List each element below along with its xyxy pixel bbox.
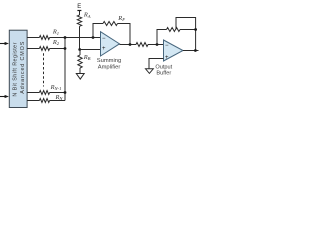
svg-text:Summing: Summing bbox=[97, 58, 121, 64]
svg-text:+: + bbox=[165, 55, 169, 61]
wire E to RA bbox=[79, 11, 81, 16]
wire RB to ground bbox=[79, 68, 81, 73]
summing feedback wire bbox=[93, 24, 130, 45]
junction loop-resistor bbox=[194, 28, 197, 31]
resistor RB bbox=[78, 55, 82, 68]
junction bus-RN-1 bbox=[64, 91, 67, 94]
svg-text:Amplifier: Amplifier bbox=[98, 65, 121, 71]
svg-text:Advanced CMOS: Advanced CMOS bbox=[20, 41, 26, 93]
resistor R2 bbox=[39, 47, 49, 51]
svg-text:+: + bbox=[102, 46, 106, 52]
summing bus wire bbox=[64, 38, 66, 101]
op-amp U2 output buffer bbox=[164, 40, 184, 61]
wire row N-1 (block to bus) bbox=[27, 92, 65, 94]
input arrow 1 bbox=[0, 42, 9, 45]
input arrow 2 bbox=[0, 95, 9, 98]
wire row 1 (block to op-amp minus input) bbox=[27, 37, 100, 39]
wire row N (block to bus corner) bbox=[27, 100, 65, 102]
buffer feedback resistor bbox=[167, 28, 181, 32]
svg-text:E: E bbox=[77, 4, 81, 10]
coupling resistor R bbox=[136, 43, 148, 47]
junction buffer input tap bbox=[156, 43, 159, 46]
wire node to RB bbox=[79, 50, 81, 56]
resistor RA bbox=[77, 15, 81, 26]
junction bus-R1 bbox=[64, 36, 67, 39]
dashed ellipsis line bbox=[43, 53, 45, 86]
svg-text:−: − bbox=[102, 36, 106, 42]
E terminal bar bbox=[77, 10, 81, 12]
junction output-RF bbox=[129, 43, 132, 46]
resistor RF bbox=[103, 22, 118, 26]
buffer output wire bbox=[183, 50, 199, 52]
resistor R1 bbox=[39, 36, 49, 40]
svg-text:N Bit Shift Register: N Bit Shift Register bbox=[12, 42, 18, 96]
ground (RB) bbox=[76, 74, 84, 80]
svg-text:Output: Output bbox=[155, 65, 172, 71]
buffer feedback parallel loop bbox=[176, 18, 196, 30]
wire RA to node (crosses row 1 without junction) bbox=[79, 26, 81, 49]
junction bus-R2 bbox=[64, 47, 67, 50]
ground (buffer) bbox=[146, 69, 154, 74]
node junction plus-input bbox=[78, 48, 81, 51]
junction output-feedback bbox=[194, 49, 197, 52]
summing feedback tap junction bbox=[92, 36, 95, 39]
op-amp U1 summing amplifier bbox=[101, 32, 120, 56]
wire node to plus input bbox=[80, 49, 101, 51]
svg-text:−: − bbox=[165, 43, 169, 49]
wire row 2 (block to bus) bbox=[27, 48, 65, 50]
buffer feedback wire bbox=[157, 30, 196, 51]
summing output wire bbox=[120, 44, 164, 46]
resistor RN-1 bbox=[39, 91, 49, 95]
buffer plus input wire bbox=[149, 59, 164, 69]
svg-text:Buffer: Buffer bbox=[156, 71, 171, 77]
shift register block U1 bbox=[9, 30, 27, 107]
resistor RN bbox=[39, 99, 49, 103]
